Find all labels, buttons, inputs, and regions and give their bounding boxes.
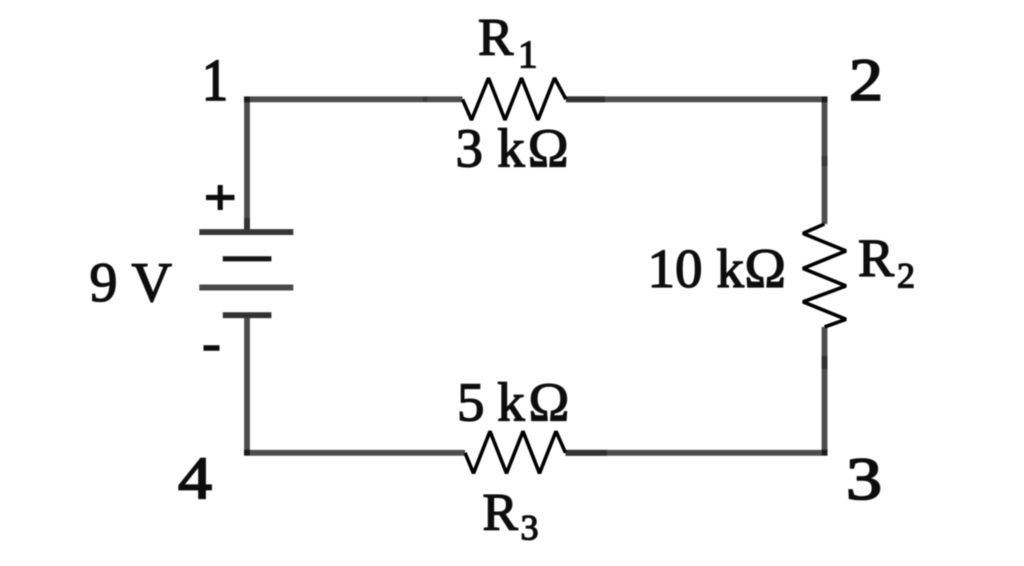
wire junction dark tick on right wire upper: [822, 156, 828, 166]
svg-text:9: 9: [90, 252, 118, 314]
svg-text:k: k: [497, 118, 525, 179]
svg-text:R: R: [478, 9, 514, 67]
battery short plate 2: [223, 256, 272, 261]
svg-text:5: 5: [457, 372, 485, 433]
battery + polarity sign: [206, 185, 235, 210]
wire: top-right horizontal + right vertical upper (node 2 corner): [566, 99, 825, 224]
svg-text:1: 1: [202, 47, 228, 113]
wire junction dark tick above battery: [244, 218, 250, 231]
svg-text:2: 2: [849, 47, 883, 113]
svg-text:1: 1: [518, 33, 538, 76]
wire: bottom-left horizontal + left vertical lower (node 4 corner): [247, 315, 465, 453]
node 1 corner dot: [244, 97, 250, 103]
svg-text:Ω: Ω: [528, 118, 569, 179]
svg-text:R: R: [483, 484, 519, 542]
wire: right vertical lower + bottom-right horizontal (node 3 corner): [566, 327, 825, 453]
wire junction dark tick below R2: [822, 356, 828, 369]
svg-text:k: k: [717, 238, 745, 299]
svg-text:3: 3: [846, 446, 882, 512]
wire junction dark dot on top wire: [423, 97, 428, 102]
battery V1 long plate top: [199, 229, 293, 235]
battery short plate 4 (bottom): [223, 312, 272, 318]
svg-text:10: 10: [648, 238, 703, 299]
battery long plate 3: [199, 285, 293, 291]
svg-text:k: k: [497, 372, 525, 433]
svg-text:V: V: [132, 252, 172, 314]
node 4 corner dot: [244, 450, 250, 456]
battery - polarity sign: [204, 345, 220, 351]
svg-text:3: 3: [521, 508, 539, 548]
resistor R1 zigzag: [463, 78, 567, 120]
wire: node1 top-left corner (left vertical upper + top-left horizontal): [247, 99, 463, 232]
svg-text:Ω: Ω: [744, 238, 786, 300]
wire junction dark tick right of R1: [566, 96, 605, 102]
node 2 corner dot: [822, 97, 828, 103]
resistor R3 zigzag: [465, 431, 566, 473]
svg-text:2: 2: [897, 256, 915, 296]
svg-text:R: R: [858, 228, 894, 288]
node 3 corner dot: [822, 450, 828, 456]
svg-text:4: 4: [178, 445, 212, 511]
resistor R2 zigzag (vertical): [803, 224, 846, 327]
svg-text:Ω: Ω: [529, 372, 570, 433]
wire junction dark tick right of R3: [566, 450, 608, 456]
svg-text:3: 3: [456, 118, 484, 179]
